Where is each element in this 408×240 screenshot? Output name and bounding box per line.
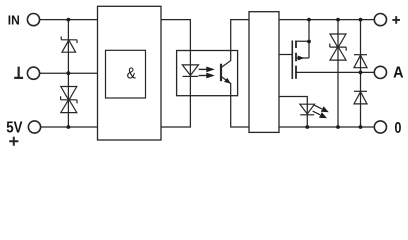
junction node diode chain A: [359, 71, 363, 75]
terminal IN: [27, 14, 39, 26]
svg-text:&: &: [127, 65, 137, 82]
logic block box: [98, 6, 162, 140]
junction node GND bus: [67, 71, 71, 75]
svg-text:5V: 5V: [6, 119, 22, 136]
LED light arrows: [313, 105, 329, 118]
junction node drain top: [307, 18, 311, 22]
bidirectional suppressor diode V3: [330, 20, 346, 127]
opto light arrows: [199, 67, 215, 79]
status LED D2: [279, 97, 315, 128]
junction node drain elbow: [307, 40, 311, 44]
terminal GND: [27, 67, 39, 79]
svg-text:A: A: [393, 65, 404, 82]
junction node diode chain bottom: [359, 125, 363, 129]
junction node diode chain top: [359, 18, 363, 22]
junction node TVS bottom: [336, 125, 340, 129]
svg-text:IN: IN: [8, 13, 20, 28]
opto LED D1: [182, 65, 198, 77]
label + under 5V: [9, 137, 18, 146]
wire 5V rail: [41, 126, 98, 128]
wire 0 rail: [279, 126, 375, 128]
junction node 5V bus: [67, 125, 71, 129]
junction node IN bus: [67, 18, 71, 22]
optocoupler box U2: [177, 51, 238, 96]
AND gate box U1: [106, 50, 146, 98]
zener diode V1: [61, 37, 77, 53]
wire logic to opto LED anode and cathode return: [161, 20, 190, 127]
wire + rail: [279, 19, 374, 21]
wire A rail / source: [296, 71, 374, 73]
freewheel diode V5: [354, 91, 367, 104]
driver block box: [249, 12, 279, 133]
junction node TVS top: [336, 18, 340, 22]
svg-text:0: 0: [395, 120, 402, 137]
bidirectional suppressor diode V2: [61, 87, 77, 113]
label + at terminal plus: [392, 16, 400, 24]
opto phototransistor Q1: [221, 20, 249, 127]
label GND symbol: [14, 67, 23, 78]
mosfet Q2: [279, 20, 309, 79]
wire GND rail: [40, 72, 98, 74]
freewheel diode V4: [354, 20, 367, 127]
terminal +: [374, 14, 386, 26]
terminal 0: [374, 121, 386, 133]
junction node LED cathode: [305, 125, 309, 129]
terminal 5V: [28, 121, 40, 133]
wire input clamp bus: [67, 20, 69, 127]
terminal A: [374, 66, 386, 78]
wire IN rail: [40, 19, 98, 21]
